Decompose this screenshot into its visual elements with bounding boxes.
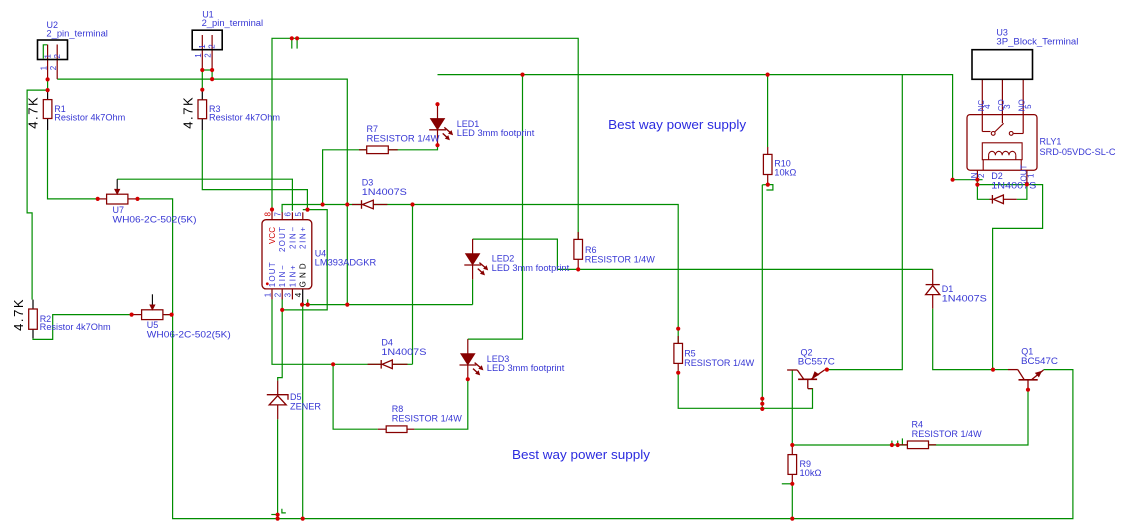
junction 14 [300, 303, 304, 307]
wire GND row below U4 [302, 304, 473, 306]
wire D5 bottom to bus [277, 419, 279, 518]
wire U1 pin1 down to R3 [201, 70, 203, 90]
wire stub at pin5 column [307, 299, 309, 304]
wire LED1 bottom to R7 [323, 145, 438, 204]
svg-text:4.7K: 4.7K [180, 97, 195, 129]
wire top bus from U4 pin8 to R6 [272, 38, 578, 239]
wire U4 pin6 riser to U7 wiper row [117, 179, 292, 211]
svg-text:3: 3 [1003, 104, 1012, 109]
resistor R2 [29, 300, 38, 339]
wire U7 right pin down rail to bottom bus and Q1 emitter [136, 199, 1073, 519]
junction 3 [200, 68, 204, 72]
junction 25 [435, 102, 439, 106]
wire D5 hook right [282, 509, 286, 513]
svg-text:1: 1 [1026, 173, 1035, 178]
junction 41 [301, 517, 305, 521]
wire U2 pin1 to junction [47, 79, 49, 90]
svg-text:RLY1: RLY1 [1040, 137, 1062, 147]
svg-text:4.7K: 4.7K [26, 97, 41, 129]
wire LED3 top lead [467, 339, 469, 354]
junction 38 [790, 517, 794, 521]
wire LED2 bottom lead [472, 265, 474, 279]
svg-text:D5: D5 [290, 392, 302, 402]
junction 34 [790, 443, 794, 447]
junction 21 [130, 313, 134, 317]
wire U1 pin pair link [202, 69, 212, 71]
wire GND column down to bottom bus [302, 305, 304, 519]
svg-text:2: 2 [49, 65, 58, 70]
svg-text:2_pin_terminal: 2_pin_terminal [46, 28, 108, 38]
svg-text:7: 7 [274, 212, 283, 217]
terminal U1 [192, 30, 222, 70]
junction 36 [896, 443, 900, 447]
svg-text:1N4007S: 1N4007S [381, 347, 426, 357]
svg-text:LED 3mm footprint: LED 3mm footprint [487, 363, 565, 373]
junction 48 [1025, 182, 1029, 186]
svg-text:2: 2 [204, 53, 213, 58]
junction 39 [276, 513, 280, 517]
wire Q1 base lead [993, 369, 1008, 371]
wire R5 bottom row to Q2 collector [678, 370, 812, 408]
junction 1 [46, 77, 50, 81]
junction 44 [1026, 388, 1030, 392]
svg-text:2: 2 [977, 173, 986, 178]
svg-text:D3: D3 [362, 178, 374, 188]
svg-text:5: 5 [294, 212, 303, 217]
wire Q2 emitter rail up to top-right bus [827, 75, 902, 370]
svg-text:3: 3 [284, 292, 293, 297]
svg-text:1: 1 [43, 54, 52, 59]
wire U4 pin1 column to D4 row [272, 299, 413, 364]
svg-text:WH06-2C-502(5K): WH06-2C-502(5K) [147, 329, 231, 339]
wire D1 bottom to Q1 base [933, 309, 993, 370]
LED LED2 [464, 254, 488, 276]
svg-text:RESISTOR 1/4W: RESISTOR 1/4W [392, 413, 463, 423]
junction 8 [295, 36, 299, 40]
wire LED1 top lead [437, 104, 439, 118]
junction 47 [975, 183, 979, 187]
svg-text:Resistor 4k7Ohm: Resistor 4k7Ohm [209, 112, 280, 122]
svg-text:BC547C: BC547C [1021, 356, 1059, 366]
svg-text:4: 4 [983, 104, 992, 109]
svg-text:Best way power supply: Best way power supply [512, 447, 651, 462]
svg-text:4: 4 [294, 292, 303, 297]
svg-text:1OUT: 1OUT [268, 262, 277, 287]
wire D5 hook left stub [271, 514, 277, 516]
svg-text:U5: U5 [147, 320, 159, 330]
svg-text:10kΩ: 10kΩ [800, 468, 822, 478]
LED LED3 [460, 354, 484, 376]
svg-text:RESISTOR 1/4W: RESISTOR 1/4W [912, 429, 983, 439]
wire U2 internal stub [43, 45, 47, 59]
svg-text:VCC: VCC [268, 227, 277, 244]
relay RLY1 [967, 115, 1037, 185]
junction 46 [975, 178, 979, 182]
wire LED2 top lead [472, 239, 474, 254]
transistor Q2 [787, 370, 827, 389]
transistor Q1 [1008, 370, 1044, 390]
resistor R9 [788, 445, 797, 484]
svg-text:6: 6 [284, 212, 293, 217]
junction 17 [280, 308, 284, 312]
svg-text:2OUT: 2OUT [278, 227, 287, 252]
wire stub r4-c [901, 438, 903, 445]
svg-text:2: 2 [208, 44, 217, 49]
junction 13 [410, 202, 414, 206]
wire R6 bottom row to D1 [557, 268, 932, 270]
junction 49 [466, 377, 470, 381]
junction 40 [276, 517, 280, 521]
LED LED1 [429, 119, 453, 141]
svg-text:5: 5 [1024, 104, 1033, 109]
junction 24 [766, 73, 770, 77]
wire top-right bus from LED1 to relay IN [438, 75, 983, 180]
svg-text:R6: R6 [585, 245, 597, 255]
svg-text:1N4007S: 1N4007S [942, 293, 987, 303]
svg-text:LED 3mm footprint: LED 3mm footprint [492, 263, 570, 273]
junction 19 [96, 197, 100, 201]
junction 26 [435, 143, 439, 147]
junction 37 [790, 482, 794, 486]
junction 28 [676, 327, 680, 331]
wire LED2 top to R6 row [473, 239, 558, 269]
junction 15 [306, 303, 310, 307]
svg-text:1N4007S: 1N4007S [991, 181, 1036, 191]
wire stub r4-a [891, 441, 893, 445]
potentiometer U7 [100, 179, 136, 204]
svg-text:1: 1 [194, 53, 203, 58]
wire LED1 bottom lead [437, 130, 439, 145]
junction 45 [951, 178, 955, 182]
svg-text:1IN+: 1IN+ [288, 265, 297, 287]
wire relay IN pin down to D2 [977, 180, 989, 200]
resistor R10 [763, 147, 772, 185]
junction 35 [890, 443, 894, 447]
svg-text:LM393ADGKR: LM393ADGKR [315, 258, 377, 268]
junction 43 [991, 368, 995, 372]
svg-text:2: 2 [274, 292, 283, 297]
diode D3 [352, 200, 387, 209]
svg-text:1: 1 [39, 65, 48, 70]
resistor R1 [43, 90, 52, 130]
svg-text:RESISTOR 1/4W: RESISTOR 1/4W [585, 255, 656, 265]
svg-text:2_pin_terminal: 2_pin_terminal [202, 18, 264, 28]
junction 10 [305, 208, 309, 212]
junction 18 [331, 362, 335, 366]
svg-text:2IN−: 2IN− [288, 227, 297, 249]
resistor R4 [900, 441, 936, 449]
wire U1 pin2 to row [211, 70, 213, 79]
svg-text:1IN−: 1IN− [278, 265, 287, 287]
junction 23 [520, 73, 524, 77]
svg-text:8: 8 [263, 212, 272, 217]
wire left rail from U2 pin1 down to R2 [27, 90, 47, 300]
junction 29 [676, 371, 680, 375]
svg-text:10kΩ: 10kΩ [774, 168, 796, 178]
node U4 pin1 marker [266, 282, 269, 285]
resistor R3 [198, 90, 207, 130]
svg-text:Best way power supply: Best way power supply [608, 117, 747, 132]
svg-text:GND: GND [299, 263, 308, 287]
svg-text:Resistor 4k7Ohm: Resistor 4k7Ohm [40, 322, 111, 332]
terminal U3 [972, 50, 1033, 134]
potentiometer U5 [130, 294, 172, 319]
junction 16 [345, 303, 349, 307]
svg-text:2IN+: 2IN+ [299, 227, 308, 249]
wire R2 bottom loop to U5 left pin [33, 315, 130, 340]
wire D2 right up to OUT pin [1017, 185, 1027, 200]
wire stub r4-b [897, 441, 899, 445]
zener diode D5 [267, 381, 288, 420]
svg-text:3P_Block_Terminal: 3P_Block_Terminal [996, 37, 1078, 47]
wire R6 column down from bus to LED3 top [468, 75, 523, 340]
wire relay OUT loop down to Q1 base [993, 185, 1043, 370]
wire D2 upper link [977, 184, 1027, 186]
junction 32 [760, 407, 764, 411]
wire D4 row dot down to R8 [333, 364, 378, 429]
svg-text:1N4007S: 1N4007S [362, 187, 407, 197]
wire stub b on top bus [296, 38, 298, 48]
wire R8 right to LED3 bottom [414, 379, 467, 429]
svg-text:SRD-05VDC-SL-C: SRD-05VDC-SL-C [1040, 147, 1117, 157]
svg-text:RESISTOR 1/4W: RESISTOR 1/4W [367, 133, 441, 143]
wire U2 pin2 row to D3 column [57, 79, 347, 305]
wire D4 right riser to D3 row [412, 205, 414, 365]
wire R3 bottom to U4 pin5 riser [202, 130, 307, 210]
wire Q2 base column down to R4 row [791, 370, 793, 445]
diode D2 [990, 195, 1017, 204]
resistor R6 [574, 232, 583, 269]
wire R10 top [767, 75, 769, 147]
svg-text:1: 1 [263, 292, 272, 297]
svg-text:WH06-2C-502(5K): WH06-2C-502(5K) [113, 215, 197, 225]
svg-text:BC557C: BC557C [798, 357, 836, 367]
svg-text:LED 3mm footprint: LED 3mm footprint [457, 128, 535, 138]
junction 33 [766, 183, 770, 187]
svg-text:2: 2 [53, 54, 62, 59]
svg-text:RESISTOR 1/4W: RESISTOR 1/4W [684, 358, 755, 368]
svg-text:Resistor 4k7Ohm: Resistor 4k7Ohm [54, 112, 125, 122]
wire U5 right pin to rail [164, 314, 171, 316]
junction 22 [170, 313, 174, 317]
junction 9 [270, 207, 274, 211]
junction 27 [576, 267, 580, 271]
junction 30 [760, 397, 764, 401]
wire R10 rail link [762, 184, 768, 186]
op-amp U4 LM393ADGKR [262, 210, 312, 304]
resistor R8 [378, 426, 415, 433]
svg-text:1: 1 [198, 44, 207, 49]
wire R10 bottom hook [766, 185, 773, 190]
wire stub a on top bus [291, 38, 293, 48]
wire U4 pin5 stub row down to pin2 row [282, 210, 327, 310]
junction 2 [46, 88, 50, 92]
wire U7 left pin to R1 [48, 130, 100, 199]
junction 5 [210, 77, 214, 81]
wire R9 bottom to bus [791, 484, 793, 519]
svg-text:LED2: LED2 [492, 254, 515, 264]
junction 42 [825, 368, 829, 372]
terminal U2 [38, 40, 68, 79]
junction 4 [210, 68, 214, 72]
wire LED3 bottom lead [467, 365, 469, 379]
resistor R5 [674, 336, 683, 370]
junction 20 [135, 197, 139, 201]
junction 7 [290, 36, 294, 40]
svg-text:4.7K: 4.7K [11, 299, 26, 331]
resistor R7 [359, 146, 398, 154]
svg-text:ZENER: ZENER [290, 402, 321, 412]
diode D1 [926, 269, 940, 308]
junction 31 [760, 402, 764, 406]
junction 12 [345, 202, 349, 206]
wire U4 pin2 column to D5 [278, 299, 283, 381]
wire LED2 bottom [472, 279, 474, 304]
wire U4 pin7 row through D3 to R5 [282, 205, 678, 344]
diode D4 [368, 360, 408, 369]
junction 11 [321, 202, 325, 206]
junction 6 [200, 88, 204, 92]
wire R9 bottom left stub [782, 483, 791, 485]
wire R4 row to Q1 collector [792, 390, 1028, 445]
wire R10 rail down to dot cluster [761, 185, 763, 409]
